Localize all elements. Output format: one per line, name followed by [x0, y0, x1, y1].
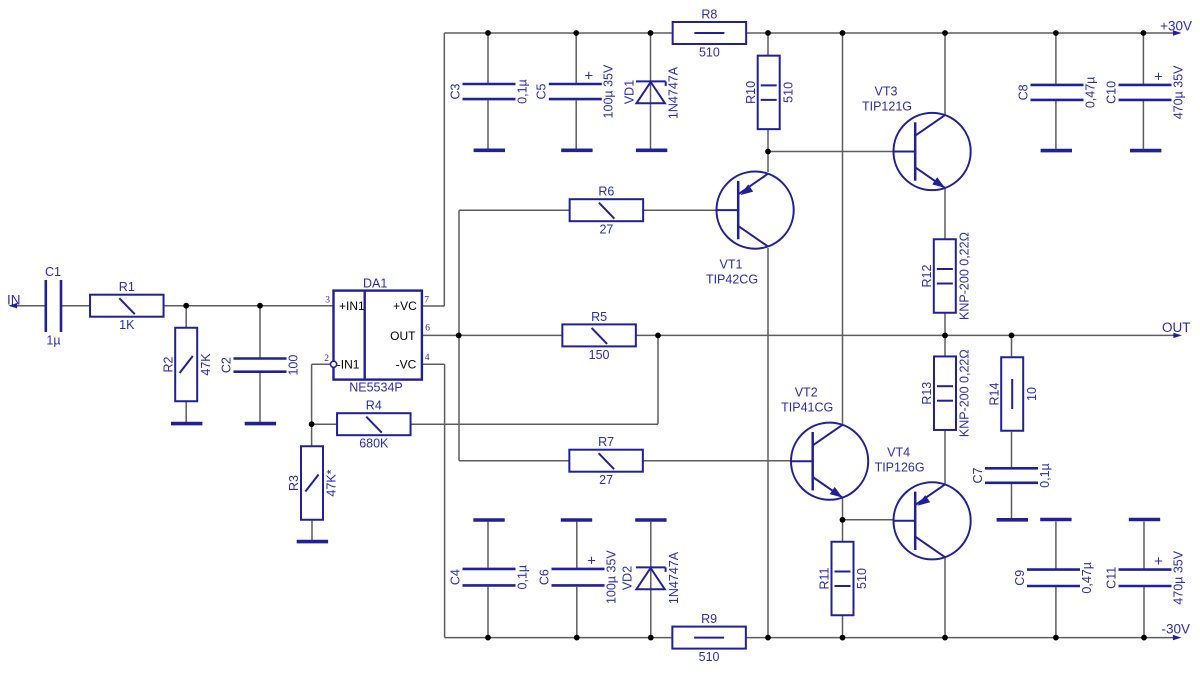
svg-text:TIP41CG: TIP41CG [781, 400, 833, 414]
svg-text:KNP-200 0,22Ω: KNP-200 0,22Ω [958, 349, 972, 437]
svg-text:2: 2 [324, 354, 329, 364]
svg-text:R8: R8 [701, 8, 717, 22]
svg-text:R6: R6 [598, 185, 614, 199]
svg-text:0,1µ: 0,1µ [1038, 463, 1052, 488]
svg-text:+: + [587, 552, 596, 569]
svg-text:C1: C1 [45, 265, 61, 279]
svg-text:C11: C11 [1104, 567, 1118, 589]
svg-text:TIP126G: TIP126G [875, 461, 925, 475]
svg-text:TIP121G: TIP121G [862, 100, 912, 114]
svg-text:+: + [1154, 68, 1163, 85]
svg-text:+IN1: +IN1 [339, 299, 365, 313]
svg-text:+30V: +30V [1160, 18, 1192, 33]
svg-text:R13: R13 [920, 382, 934, 405]
svg-text:R9: R9 [701, 612, 717, 626]
svg-text:C6: C6 [537, 569, 551, 585]
svg-text:R5: R5 [591, 310, 607, 324]
svg-text:C8: C8 [1016, 84, 1030, 100]
svg-text:1K: 1K [119, 318, 135, 332]
svg-text:1N4747A: 1N4747A [666, 66, 680, 119]
svg-text:R12: R12 [920, 264, 934, 287]
svg-text:KNP-200 0,22Ω: KNP-200 0,22Ω [957, 232, 971, 320]
svg-text:27: 27 [599, 473, 613, 487]
svg-text:R11: R11 [818, 567, 832, 589]
svg-text:TIP42CG: TIP42CG [706, 272, 758, 286]
svg-text:150: 150 [589, 348, 610, 362]
svg-text:C10: C10 [1104, 81, 1118, 104]
svg-text:OUT: OUT [1162, 320, 1191, 335]
svg-text:VT4: VT4 [887, 446, 910, 460]
svg-text:10: 10 [1025, 387, 1039, 401]
svg-text:100µ 35V: 100µ 35V [604, 550, 618, 604]
svg-text:C7: C7 [971, 468, 985, 484]
svg-text:7: 7 [424, 295, 429, 305]
svg-text:-IN1: -IN1 [337, 358, 360, 372]
svg-text:C4: C4 [448, 569, 462, 585]
svg-text:510: 510 [855, 568, 869, 589]
svg-text:0,1µ: 0,1µ [515, 565, 529, 590]
svg-text:VT2: VT2 [795, 385, 818, 399]
svg-text:DA1: DA1 [363, 276, 387, 290]
svg-text:R7: R7 [598, 435, 614, 449]
svg-text:47K*: 47K* [325, 469, 339, 496]
svg-text:R14: R14 [987, 382, 1001, 405]
svg-text:NE5534P: NE5534P [349, 380, 403, 394]
svg-text:0,1µ: 0,1µ [515, 79, 529, 104]
svg-text:470µ 35V: 470µ 35V [1171, 550, 1185, 604]
svg-text:0,47µ: 0,47µ [1083, 77, 1097, 109]
svg-text:47K: 47K [199, 353, 213, 376]
svg-text:R2: R2 [161, 356, 175, 372]
svg-text:470µ 35V: 470µ 35V [1171, 65, 1185, 119]
svg-text:510: 510 [699, 650, 720, 664]
svg-text:-30V: -30V [1161, 622, 1190, 637]
svg-text:R10: R10 [744, 81, 758, 104]
svg-text:4: 4 [425, 353, 430, 363]
svg-text:0,47µ: 0,47µ [1080, 562, 1094, 594]
svg-text:VT3: VT3 [875, 85, 898, 99]
svg-text:100µ 35V: 100µ 35V [602, 64, 616, 118]
svg-text:C3: C3 [448, 84, 462, 100]
svg-text:1µ: 1µ [46, 334, 60, 348]
svg-text:27: 27 [599, 223, 613, 237]
svg-text:100: 100 [286, 355, 300, 376]
svg-text:510: 510 [699, 46, 720, 60]
svg-text:VD2: VD2 [621, 566, 635, 590]
svg-text:C2: C2 [219, 357, 233, 373]
svg-text:-VC: -VC [396, 358, 417, 372]
svg-text:680K: 680K [359, 437, 389, 451]
svg-text:R4: R4 [366, 399, 382, 413]
svg-text:+: + [1154, 553, 1163, 570]
svg-text:3: 3 [325, 295, 330, 305]
svg-text:510: 510 [781, 82, 795, 103]
svg-text:C9: C9 [1013, 570, 1027, 586]
svg-text:1N4747A: 1N4747A [667, 551, 681, 604]
svg-text:R1: R1 [119, 280, 135, 294]
svg-text:+VC: +VC [393, 299, 417, 313]
svg-text:OUT: OUT [390, 329, 416, 343]
svg-text:C5: C5 [535, 84, 549, 100]
svg-text:VT1: VT1 [720, 257, 743, 271]
svg-text:R3: R3 [287, 475, 301, 491]
svg-text:VD1: VD1 [622, 80, 636, 104]
svg-text:+: + [584, 68, 593, 85]
svg-text:6: 6 [425, 324, 430, 334]
